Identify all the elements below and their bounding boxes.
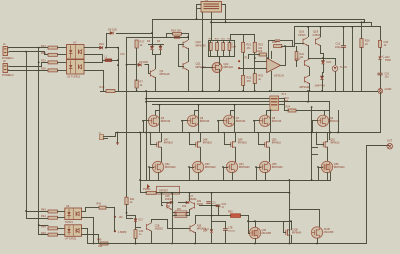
wire [225, 230, 227, 244]
wire from X5 down to gate bus [380, 92, 382, 133]
wire vertical bus B to bottom opto R45 [39, 48, 49, 226]
svg-text:1N4744A: 1N4744A [315, 85, 326, 88]
wire [361, 22, 363, 39]
wire [161, 192, 163, 206]
wire [319, 209, 321, 227]
wire gate drop [283, 221, 285, 233]
wire Q27 emitter [195, 232, 197, 244]
svg-text:A2B: A2B [197, 225, 202, 228]
wire [323, 53, 325, 61]
svg-text:10u: 10u [385, 76, 390, 79]
wire Q26 base right [199, 205, 219, 207]
wire [254, 34, 256, 43]
wire source to rail [327, 172, 329, 181]
transistor Q6 IRFP240 [187, 115, 198, 126]
wire [178, 44, 180, 67]
wire [189, 167, 191, 181]
wire Q32 drain [291, 221, 293, 230]
svg-text:IRFP9240: IRFP9240 [334, 166, 345, 169]
wire column [234, 104, 236, 133]
capacitor C5 [174, 36, 180, 38]
resistor R40 [146, 191, 156, 194]
wire bank to rail [211, 22, 213, 41]
svg-text:MPSA92: MPSA92 [196, 43, 207, 47]
wire [380, 59, 382, 73]
wire gate [218, 120, 224, 122]
wire U3 out2 [81, 217, 94, 219]
resistor R45 [48, 227, 58, 230]
wire [258, 137, 260, 145]
svg-text:IRFP9240: IRFP9240 [239, 166, 250, 169]
inductor L1 [105, 59, 112, 62]
wire [285, 47, 287, 65]
wire [211, 192, 213, 227]
transistor Q56 IRFP9240 [321, 161, 332, 172]
diode D5 [138, 63, 141, 66]
wire [240, 215, 249, 217]
wire [143, 120, 145, 133]
svg-text:1.6MHZ: 1.6MHZ [118, 231, 127, 234]
wire U2 out1 [84, 62, 103, 64]
wire [57, 234, 65, 236]
wire [317, 238, 319, 244]
wire gate [254, 120, 260, 122]
wire [343, 47, 345, 92]
wire stub [311, 154, 318, 156]
wire fet top bus [248, 221, 292, 223]
wire [57, 47, 67, 49]
wire rail bottom top [161, 192, 290, 194]
wire [268, 40, 275, 42]
svg-text:Q10: Q10 [196, 40, 202, 44]
svg-text:Q11: Q11 [196, 62, 202, 66]
svg-text:1F2: 1F2 [119, 216, 124, 219]
transistor Q55 IRFP9240 [259, 161, 270, 172]
wire gate [189, 167, 194, 169]
svg-text:LS1: LS1 [98, 245, 103, 248]
svg-text:C21: C21 [212, 203, 217, 205]
resistor R15 [48, 61, 58, 64]
wire long vertical [140, 132, 142, 193]
resistor R18 [173, 33, 182, 36]
wire source down [161, 147, 163, 162]
svg-text:A29: A29 [197, 200, 202, 203]
svg-text:2SK1058: 2SK1058 [324, 231, 335, 234]
transistor Q27 [190, 224, 195, 232]
wire opamp V+ [271, 51, 273, 59]
wire [243, 34, 245, 43]
box offset trim [157, 186, 180, 194]
svg-text:IRFP9240: IRFP9240 [165, 166, 176, 169]
wire [218, 206, 220, 216]
trimpot P2 [147, 184, 150, 189]
wire [380, 74, 382, 89]
transistor Q24 [147, 223, 152, 231]
svg-text:MPSA92: MPSA92 [300, 85, 311, 89]
wire Q32 source [291, 235, 293, 244]
wire [230, 34, 255, 36]
wire [195, 215, 211, 217]
wire Q3 collector up [155, 57, 157, 69]
transistor Q22 MPF102 [212, 63, 222, 73]
wire U4 out2 [81, 234, 99, 236]
op-amp U1 AD711 [267, 58, 281, 72]
wire [308, 91, 310, 102]
resistor R30 [295, 52, 298, 61]
transistor Q30 2SK1058 [249, 227, 260, 238]
wire drain [267, 111, 271, 116]
zener D21 [321, 61, 324, 64]
wire relay left pin [197, 5, 202, 20]
wire to R44 [27, 218, 49, 220]
wire bank top bus [208, 40, 235, 42]
wire [26, 211, 28, 219]
svg-text:R44: R44 [41, 214, 46, 218]
wire Q11 base [178, 66, 184, 68]
resistor R49 on bottom rail [100, 242, 108, 245]
resistor R13 [48, 46, 58, 49]
wire gate [318, 167, 323, 169]
wire rail T3 [152, 104, 270, 106]
transistor Q8 IRFP240 [259, 115, 270, 126]
wire gate [189, 144, 196, 146]
wire [181, 33, 189, 35]
wire feedback to inv [268, 40, 270, 59]
wire [98, 234, 100, 244]
wire [255, 222, 257, 227]
wire gate [150, 144, 157, 146]
svg-text:MPF102: MPF102 [224, 66, 234, 69]
wire drain [195, 111, 199, 116]
wire [57, 211, 65, 213]
svg-text:IRFP240: IRFP240 [236, 120, 246, 123]
wire Q3 emitter down [155, 77, 157, 92]
wire [189, 137, 191, 145]
optocoupler U2 [67, 60, 85, 75]
wire source to rail [232, 172, 234, 181]
wire [166, 33, 173, 35]
wire source down [327, 147, 329, 162]
wire U3 out1 [81, 211, 86, 213]
wire [135, 215, 137, 219]
wire gate [182, 120, 188, 122]
wire gate [258, 144, 265, 146]
svg-text:AGND: AGND [385, 88, 392, 91]
svg-text:R24: R24 [286, 106, 291, 109]
capacitor C7 [223, 228, 228, 230]
zener D22 [320, 76, 323, 79]
wire [149, 167, 151, 181]
wire [296, 110, 330, 112]
connector J1 [3, 47, 8, 56]
wire [280, 40, 293, 42]
wire Q25 collector/tail [172, 192, 174, 244]
svg-text:R40: R40 [146, 188, 151, 191]
transistor Q50 IRF9610 [265, 141, 270, 148]
resistor R10 [216, 43, 219, 51]
wire drain up [235, 132, 237, 142]
diode D11 [170, 201, 173, 204]
resistor R46 [48, 233, 58, 236]
wire [335, 71, 337, 92]
net symbol X5 [378, 89, 383, 94]
wire Q27 collector up [195, 216, 197, 224]
wire [211, 221, 226, 223]
wire Q18 collector up [320, 27, 322, 37]
wire corner to Q56 [330, 172, 332, 181]
svg-text:IRF9610: IRF9610 [164, 142, 174, 145]
svg-text:470: 470 [247, 80, 252, 83]
wire main rail V1 [100, 91, 378, 93]
wire diode bottoms [152, 54, 161, 56]
resistor R7 [135, 80, 138, 88]
wire [294, 26, 296, 47]
wire gate [224, 144, 231, 146]
wire [155, 54, 157, 57]
wire [254, 61, 256, 74]
transistor Q3 [150, 69, 155, 77]
wire [361, 47, 363, 92]
wire [136, 48, 138, 65]
diode D12 [186, 201, 189, 204]
wire column [270, 110, 272, 133]
svg-text:D17: D17 [139, 219, 144, 222]
svg-text:Q30: Q30 [262, 229, 267, 232]
diode D9 [110, 31, 113, 34]
wire [266, 55, 268, 62]
wire [117, 132, 119, 143]
resistor R23 [253, 42, 256, 52]
svg-text:IRF9610: IRF9610 [272, 142, 282, 145]
wire drain [156, 111, 160, 116]
svg-text:U4 TLP521: U4 TLP521 [65, 239, 77, 241]
wire [243, 52, 245, 76]
svg-text:POWER-2: POWER-2 [2, 74, 14, 77]
wire rail right y27 [294, 26, 381, 28]
wire [57, 217, 65, 219]
svg-text:R45: R45 [41, 225, 46, 229]
svg-text:R14: R14 [41, 51, 46, 55]
wire [248, 54, 260, 56]
wire gate [143, 120, 149, 122]
resistor R14 [48, 53, 58, 56]
wire [135, 238, 137, 244]
wire U7 out2 [84, 54, 103, 56]
capacitor C12 feedback [275, 39, 280, 41]
wire [318, 167, 320, 181]
wire [108, 133, 116, 137]
svg-text:IRF9640: IRF9640 [292, 232, 302, 235]
wire source down [235, 147, 237, 162]
svg-text:K1: K1 [205, 0, 209, 2]
svg-text:U2 TLP521: U2 TLP521 [67, 75, 81, 79]
wire [85, 207, 100, 209]
wire gate [149, 167, 154, 169]
wire Q10-Q11 link [188, 48, 190, 62]
svg-text:R13: R13 [41, 44, 46, 48]
wire [106, 33, 111, 35]
resistor R24 [288, 109, 296, 112]
wire stub [311, 147, 318, 149]
wire [309, 67, 311, 76]
wire drain [231, 111, 235, 116]
svg-text:C3503: C3503 [313, 34, 321, 37]
wire [57, 228, 65, 230]
svg-text:100p: 100p [335, 46, 341, 49]
svg-text:R43: R43 [41, 208, 46, 212]
wire rail T1 [146, 98, 270, 100]
wire [85, 207, 87, 212]
wire [254, 120, 256, 133]
capacitor C33 [134, 230, 137, 239]
resistor R41 [125, 197, 128, 205]
wire [151, 231, 153, 244]
svg-text:C7B: C7B [228, 228, 233, 230]
transistor Q31 2SJ162 [311, 227, 322, 238]
wire [225, 221, 227, 229]
wire vertical from relay [202, 12, 204, 92]
wire [211, 233, 213, 244]
wire Q24 base [136, 227, 141, 229]
svg-text:IRF9610: IRF9610 [203, 142, 213, 145]
wire long vertical feedback [126, 37, 128, 198]
svg-text:IRF9610: IRF9610 [238, 142, 248, 145]
wire [294, 43, 304, 45]
svg-text:D10: D10 [99, 42, 104, 46]
wire left vertical mid [146, 91, 148, 181]
wire [380, 26, 382, 41]
wire [234, 40, 236, 57]
wire to Q31 [289, 209, 320, 211]
wire column [198, 104, 200, 133]
svg-text:Q17: Q17 [296, 57, 301, 61]
connector J3 [100, 135, 104, 140]
wire gate [312, 120, 318, 122]
svg-text:AD711N: AD711N [274, 74, 284, 78]
wire [57, 54, 67, 56]
wire vertical node [118, 47, 120, 92]
resistor R21 [242, 42, 245, 52]
wire source to rail [265, 172, 267, 181]
wire [135, 222, 137, 230]
svg-text:TLP521: TLP521 [65, 222, 74, 224]
wire [102, 54, 104, 63]
wire Q22 drain [219, 57, 221, 65]
transistor Q5 IRFP240 [148, 115, 159, 126]
capacitor C31 [377, 72, 382, 74]
resistor R43 [48, 210, 58, 213]
transistor Q32 IRF9640 [286, 229, 291, 236]
wire drain up [161, 132, 163, 142]
wire [343, 26, 345, 46]
transistor Q48 IRF9610 [196, 141, 201, 148]
wire rail T1b [278, 98, 285, 100]
svg-text:D9 10D: D9 10D [108, 28, 117, 32]
wire [320, 45, 322, 54]
wire rail step [371, 22, 373, 27]
svg-text:R42: R42 [97, 203, 102, 206]
diode D10 [100, 46, 103, 49]
pin marker TP3 [114, 230, 116, 232]
resistor R9 [209, 43, 212, 51]
wire drain up [269, 132, 271, 142]
optocoupler U3 [65, 208, 82, 220]
wire J1 pin1 to R13 [8, 47, 49, 49]
transistor Q53 IRFP9240 [192, 161, 203, 172]
svg-text:R18 100: R18 100 [171, 29, 181, 33]
svg-text:6MHZ: 6MHZ [197, 204, 204, 206]
ground arrow [116, 143, 119, 146]
resistor R44 [48, 216, 58, 219]
svg-text:U3: U3 [66, 204, 70, 208]
wire [338, 110, 340, 133]
wire col5 column [329, 101, 331, 140]
wire top rail 1 [152, 19, 365, 21]
wire rail T2 [146, 101, 270, 103]
wire [323, 64, 325, 73]
wire [308, 45, 310, 59]
wire rail y37.5 [126, 37, 187, 39]
wire [312, 120, 314, 133]
transistor Q47 IRF9610 [157, 141, 162, 148]
wire col5 bus [311, 107, 313, 181]
svg-text:R50: R50 [228, 211, 233, 214]
svg-text:D12: D12 [182, 206, 187, 208]
svg-text:C2S: C2S [165, 195, 170, 198]
svg-text:2N5551: 2N5551 [155, 228, 164, 231]
wire to vertical [116, 33, 153, 35]
wire [150, 137, 152, 145]
wire column [159, 104, 161, 133]
pin marker P1b [238, 67, 240, 69]
wire rail1 end down [364, 19, 366, 23]
resistor R11 [222, 43, 225, 51]
wire relay pin [197, 8, 201, 10]
wire [106, 207, 115, 209]
wire J2 pin1 to R15 [9, 63, 49, 67]
wire right bus to output [367, 146, 390, 244]
svg-text:U7: U7 [73, 41, 77, 45]
wire [296, 60, 298, 67]
diode D3 [150, 46, 153, 49]
svg-text:R31: R31 [300, 53, 305, 56]
wire [254, 52, 256, 62]
wire [285, 46, 295, 48]
LED D25 [378, 57, 381, 60]
svg-text:IRFP9240: IRFP9240 [205, 166, 216, 169]
wire drain up [327, 132, 329, 142]
svg-text:IRFP240: IRFP240 [272, 120, 282, 123]
wire [156, 192, 162, 194]
wire drain [325, 111, 329, 116]
wire opamp noninv input [239, 68, 267, 70]
wire [208, 40, 210, 57]
diode D24 [210, 230, 213, 233]
transistor Q52 IRFP9240 [152, 161, 163, 172]
capacitor C21 [206, 201, 210, 203]
transistor Q9 IRFP240 [317, 115, 328, 126]
wire J2 pin2 to R16 [8, 70, 49, 72]
wire x352 column [352, 26, 354, 92]
svg-text:XT1: XT1 [282, 93, 287, 96]
wire relay right pin [222, 5, 226, 23]
transistor Q51 IRF9610 [323, 141, 328, 148]
wire [106, 33, 108, 48]
svg-text:R16: R16 [41, 67, 46, 71]
svg-text:IRFP9240: IRFP9240 [272, 166, 283, 169]
wire to R46 [39, 226, 49, 235]
wire [309, 83, 311, 92]
